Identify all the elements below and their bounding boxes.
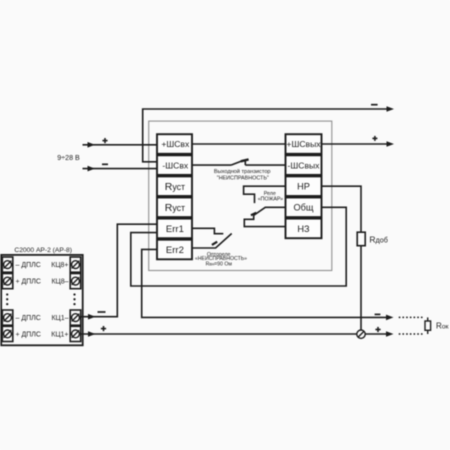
terminal Err1 <box>157 219 192 239</box>
label - (top right) <box>371 104 378 106</box>
svg-text:КЦ1–: КЦ1– <box>51 315 68 322</box>
svg-text:-ШСвх: -ШСвх <box>162 160 189 170</box>
wire: Rдоб down to + line junction <box>360 246 362 331</box>
svg-text:Rдоб: Rдоб <box>369 234 387 244</box>
svg-text:КЦ8+: КЦ8+ <box>51 262 68 269</box>
dotted continuation + <box>400 333 425 335</box>
terminal +ШСвх <box>157 134 192 154</box>
svg-text:КЦ1+: КЦ1+ <box>51 332 68 339</box>
svg-text:Rуст: Rуст <box>165 181 185 193</box>
resistor Rок <box>427 317 429 321</box>
wire: supply + input <box>83 144 158 146</box>
svg-text:«ПОЖАР»: «ПОЖАР» <box>258 196 283 202</box>
svg-text:+ШСвых: +ШСвых <box>286 139 321 149</box>
wire: НР to Rдоб <box>322 186 362 232</box>
optorelay contact: Err1 fixed step <box>192 228 223 233</box>
svg-text:"НЕИСПРАВНОСТЬ": "НЕИСПРАВНОСТЬ" <box>217 176 269 182</box>
wire: Общ loop around to Err1 <box>131 207 346 286</box>
ellipsis dots <box>6 293 76 305</box>
wire: -ШСвх loop to top-right "-" output <box>143 109 392 162</box>
wire: supply - input <box>83 168 158 170</box>
resistor Rдоб <box>357 232 365 246</box>
label - (КЦ1-) <box>98 311 106 313</box>
terminal НР <box>286 176 322 196</box>
terminal НЗ <box>286 219 322 239</box>
svg-text:Err2: Err2 <box>166 245 184 256</box>
svg-text:– ДПЛС: – ДПЛС <box>16 315 41 322</box>
svg-text:9÷28 В: 9÷28 В <box>57 154 80 162</box>
terminal square -ДПЛС (row1 left) <box>2 257 80 342</box>
terminal -ШСвх <box>157 155 192 175</box>
terminal Rуст (2) <box>157 198 192 218</box>
terminal +ШСвых <box>286 134 322 154</box>
relay ПОЖАР: НР fixed contact hook <box>244 186 286 203</box>
svg-text:Err1: Err1 <box>166 224 184 235</box>
svg-text:-ШСвых: -ШСвых <box>288 160 321 170</box>
terminal block right (module output side) <box>286 134 322 238</box>
dotted continuation - <box>400 316 425 318</box>
relay ПОЖАР: armature blade from Общ <box>254 207 286 215</box>
label + (top right) <box>372 136 377 141</box>
terminal Общ <box>286 198 322 218</box>
svg-text:Общ: Общ <box>294 203 314 213</box>
terminal block left (module input side) <box>157 134 192 259</box>
svg-text:– ДПЛС: – ДПЛС <box>16 262 41 269</box>
label + (supply) <box>102 138 107 143</box>
svg-text:+ШСвх: +ШСвх <box>161 139 190 149</box>
terminal Rуст (1) <box>157 176 192 196</box>
label - (bottom right) <box>375 313 381 315</box>
svg-text:+ ДПЛС: + ДПЛС <box>16 279 41 286</box>
svg-text:Rуст: Rуст <box>165 202 185 214</box>
screw symbols <box>4 261 80 338</box>
wire: КЦ1- to Err1 <box>81 224 157 317</box>
junction symbol on + line <box>357 330 365 338</box>
svg-text:+ ДПЛС: + ДПЛС <box>16 332 41 339</box>
optorelay contact: Err2 blade <box>192 234 232 249</box>
terminal labels <box>16 262 69 338</box>
svg-text:Rок: Rок <box>436 322 449 331</box>
module boundary (inner gray rectangle) <box>149 121 332 270</box>
terminal -ШСвых <box>286 155 322 175</box>
svg-text:С2000 АР-2 (АР-8): С2000 АР-2 (АР-8) <box>14 247 72 254</box>
svg-text:НЗ: НЗ <box>297 224 310 234</box>
label - (supply) <box>102 163 108 165</box>
svg-text:НР: НР <box>297 182 310 192</box>
label + (КЦ1+) <box>101 326 106 331</box>
svg-text:Выходной транзистор: Выходной транзистор <box>214 168 271 175</box>
transistor switch on -ШС wire <box>192 160 286 165</box>
label + (bottom right) <box>375 327 380 332</box>
terminal Err2 <box>157 240 192 260</box>
svg-text:КЦ8–: КЦ8– <box>51 279 68 286</box>
wire: +ШСвх to +ШСвых <box>192 143 286 145</box>
wire: КЦ1+ bottom "+" line to Rок <box>81 333 391 335</box>
relay ПОЖАР: НЗ step <box>244 215 285 226</box>
wire: Err2 down to bottom "-" line to Rок <box>142 249 391 317</box>
wire: +ШСвых to top-right "+" output <box>322 143 392 145</box>
